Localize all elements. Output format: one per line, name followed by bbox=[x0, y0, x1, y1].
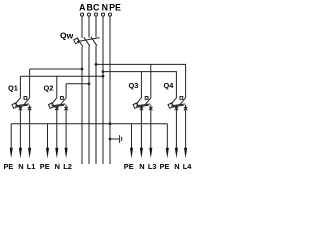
wire group1 L output bbox=[29, 105, 31, 150]
breaker Q1 linkage bbox=[15, 104, 29, 106]
wire group1 N output bbox=[19, 105, 21, 150]
svg-text:B: B bbox=[87, 2, 93, 12]
breaker Q1 label bbox=[8, 84, 18, 93]
wire group2 L output bbox=[65, 105, 67, 150]
breaker Q3 release box bbox=[145, 97, 148, 100]
wire phase C bus bbox=[95, 16, 97, 164]
switch Qw pole B blade bbox=[84, 37, 90, 46]
breaker Q2 actuator box bbox=[48, 103, 54, 109]
breaker Q3 N-pole blade bbox=[136, 97, 142, 104]
wire PE distribution line bbox=[11, 123, 167, 125]
label group4 PE N L4 bbox=[160, 162, 193, 171]
breaker Q2 linkage bbox=[52, 104, 66, 106]
svg-text:N: N bbox=[18, 162, 23, 171]
arrow group2 PE bbox=[46, 148, 49, 159]
breaker Q1 N contact X bbox=[19, 107, 22, 110]
terminal circle N bbox=[101, 13, 104, 16]
wire earth stub bbox=[110, 138, 119, 140]
wire feeder N to Q1/Q2 N-poles (left shared) bbox=[20, 75, 103, 77]
breaker Q1 linkage lower bar bbox=[15, 105, 27, 107]
svg-text:N: N bbox=[139, 162, 144, 171]
node B terminal label bbox=[87, 2, 93, 12]
breaker Q3 label bbox=[129, 81, 139, 90]
wire Q3 L-pole drop bbox=[150, 64, 152, 97]
wire group3 PE drop bbox=[131, 124, 133, 150]
svg-text:PE: PE bbox=[40, 162, 50, 171]
junction dot N bus right bbox=[102, 70, 105, 73]
switch Qw label bbox=[60, 30, 74, 40]
wire group1 PE drop bbox=[10, 124, 12, 150]
breaker Q3 L contact X bbox=[149, 107, 152, 110]
arrow group2 L bbox=[65, 148, 68, 159]
node A terminal label bbox=[79, 2, 86, 12]
breaker Q4 N contact X bbox=[175, 107, 178, 110]
svg-text:L3: L3 bbox=[148, 162, 157, 171]
terminal circle B bbox=[87, 13, 90, 16]
terminal circle C bbox=[94, 13, 97, 16]
wire feeder B to Q2 L-pole bbox=[66, 83, 89, 85]
wire group4 N output bbox=[175, 105, 177, 150]
svg-text:Q4: Q4 bbox=[164, 81, 175, 90]
svg-text:Q2: Q2 bbox=[44, 84, 54, 93]
wire group4 PE drop bbox=[166, 124, 168, 150]
breaker Q1 release box bbox=[24, 97, 27, 100]
breaker Q3 L-pole blade bbox=[145, 97, 151, 104]
breaker Q3 N contact X bbox=[140, 107, 143, 110]
arrow group4 N bbox=[175, 148, 178, 159]
arrow group1 N bbox=[19, 148, 22, 159]
svg-text:L1: L1 bbox=[27, 162, 36, 171]
breaker Q2 label bbox=[44, 84, 54, 93]
breaker Q1 L contact X bbox=[28, 107, 31, 110]
node C terminal label bbox=[93, 2, 100, 12]
arrow group4 PE bbox=[166, 148, 169, 159]
node N terminal label bbox=[102, 2, 108, 12]
wire group2 N output bbox=[56, 105, 58, 150]
breaker Q2 N contact X bbox=[55, 107, 58, 110]
breaker Q2 release box bbox=[61, 97, 64, 100]
breaker Q1 N-pole blade bbox=[15, 97, 21, 104]
svg-text:PE: PE bbox=[109, 2, 121, 12]
breaker Q2 N-pole blade bbox=[51, 97, 57, 104]
svg-text:N: N bbox=[102, 2, 108, 12]
breaker Q4 actuator box bbox=[168, 103, 174, 109]
wire group3 N output bbox=[140, 105, 142, 150]
svg-text:PE: PE bbox=[4, 162, 14, 171]
wire feeder A to Q1 L-pole bbox=[30, 68, 82, 70]
junction dot PE earth bond bbox=[109, 138, 112, 141]
wire Q3 N-pole drop bbox=[140, 72, 142, 98]
wire group3 L output bbox=[150, 105, 152, 150]
wire neutral N bus bbox=[102, 16, 104, 164]
breaker Q1 L-pole blade bbox=[24, 97, 30, 104]
svg-text:N: N bbox=[55, 162, 60, 171]
breaker Q4 release box bbox=[180, 97, 183, 100]
wire feeder N to Q3-N and Q4-N (lower right line) bbox=[103, 72, 176, 98]
terminal circle A bbox=[80, 13, 83, 16]
breaker Q4 L contact X bbox=[184, 107, 187, 110]
junction dot C bus bbox=[95, 63, 98, 66]
wire feeder C to Q3-L and Q4-L (upper right line) bbox=[96, 64, 186, 97]
svg-text:L4: L4 bbox=[183, 162, 193, 171]
label group3 PE N L3 bbox=[124, 162, 157, 171]
breaker Q4 N-pole blade bbox=[171, 97, 177, 104]
svg-text:PE: PE bbox=[124, 162, 134, 171]
svg-text:Q3: Q3 bbox=[129, 81, 139, 90]
breaker Q2 linkage lower bar bbox=[52, 105, 65, 107]
junction dot PE bus tap bbox=[109, 122, 112, 125]
arrow group3 L bbox=[149, 148, 152, 159]
ground earth symbol bbox=[120, 135, 122, 143]
breaker Q4 linkage bbox=[171, 104, 185, 106]
breaker Q2 L-pole blade bbox=[61, 97, 67, 104]
svg-text:Qw: Qw bbox=[60, 30, 74, 40]
wire phase B bus bbox=[88, 16, 90, 164]
switch Qw pole A blade bbox=[77, 38, 83, 47]
arrow group4 L bbox=[184, 148, 187, 159]
breaker Q2 L contact X bbox=[64, 107, 67, 110]
arrow group2 N bbox=[55, 148, 58, 159]
wire PE bus bbox=[109, 16, 111, 164]
svg-text:PE: PE bbox=[160, 162, 170, 171]
breaker Q3 linkage bbox=[136, 104, 150, 106]
junction dot A bus bbox=[81, 68, 84, 71]
node PE terminal label bbox=[109, 2, 121, 12]
breaker Q4 linkage lower bar bbox=[171, 105, 183, 107]
svg-text:Q1: Q1 bbox=[8, 84, 18, 93]
junction dot B bus bbox=[88, 82, 91, 85]
arrow group3 PE bbox=[130, 148, 133, 159]
wire group2 PE drop bbox=[47, 124, 49, 150]
terminal circle PE bbox=[108, 13, 111, 16]
breaker Q3 linkage lower bar bbox=[136, 105, 149, 107]
arrow group1 L bbox=[28, 148, 31, 159]
breaker Q3 actuator box bbox=[133, 103, 139, 109]
label group2 PE N L2 bbox=[40, 162, 72, 171]
svg-text:A: A bbox=[79, 2, 86, 12]
wire group4 L output bbox=[185, 105, 187, 150]
label group1 PE N L1 bbox=[4, 162, 36, 171]
svg-text:L2: L2 bbox=[63, 162, 72, 171]
breaker Q4 label bbox=[164, 81, 175, 90]
svg-text:N: N bbox=[174, 162, 179, 171]
wire Q2 N-pole drop bbox=[56, 76, 58, 97]
switch Qw actuator box bbox=[74, 38, 80, 44]
breaker Q4 L-pole blade bbox=[180, 97, 186, 104]
junction dot N bus left bbox=[102, 75, 105, 78]
wire phase A bus bbox=[81, 16, 83, 164]
arrow group3 N bbox=[140, 148, 143, 159]
breaker Q1 actuator box bbox=[12, 103, 18, 109]
switch Qw linkage bbox=[77, 38, 100, 42]
switch Qw pole C blade bbox=[91, 37, 97, 46]
arrow group1 PE bbox=[10, 148, 13, 159]
svg-text:C: C bbox=[93, 2, 100, 12]
